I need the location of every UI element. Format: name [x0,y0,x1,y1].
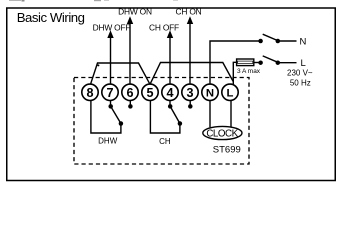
svg-text:50 Hz: 50 Hz [290,79,311,88]
svg-text:5: 5 [146,86,153,100]
svg-text:7: 7 [106,86,113,100]
wire CH ON arrow from terminal 3 [187,16,193,84]
clock motor CLOCK [203,126,242,139]
terminal L [222,84,238,100]
switch mains N [258,34,296,43]
wire fuse to L switch [254,62,259,64]
node DHW OFF contact dot [108,104,113,109]
dashed enclosure ST699 programmer [74,78,249,165]
terminal 3 [182,84,198,100]
wire terminal N up and right to mains N switch [210,41,259,84]
wire stub terminal 7 contact [110,101,112,107]
terminal 4 [162,84,178,100]
wire DHW ON arrow from terminal 6 [127,16,133,84]
node CH OFF contact dot [168,104,173,109]
node DHW ON contact dot [128,104,133,109]
svg-text:N: N [300,36,307,47]
svg-text:8: 8 [86,86,93,100]
svg-text:DHW: DHW [98,137,118,146]
fuse F1 3 A max [237,59,254,66]
node DHW pivot dot [119,121,124,126]
wire link bus terminal 5 to terminal L [150,63,233,85]
switch DHW blade [111,106,121,123]
wire stub terminal 3 contact [189,101,191,107]
node CH ON contact dot [188,104,193,109]
svg-text:CH OFF: CH OFF [149,22,179,32]
svg-text:CH: CH [159,137,171,146]
svg-text:4: 4 [166,86,173,100]
svg-text:Basic Wiring: Basic Wiring [17,10,85,25]
switch mains L [258,56,296,65]
svg-text:DHW ON: DHW ON [118,7,152,17]
svg-text:CLOCK: CLOCK [206,128,238,139]
wire CH OFF arrow from terminal 4 [167,30,173,84]
svg-text:6: 6 [126,86,133,100]
cropped text remnants at top edge [9,0,178,2]
svg-text:3 A max: 3 A max [237,68,261,75]
wire terminal N to clock [209,101,211,128]
svg-text:ST699: ST699 [213,145,241,156]
outer frame [7,8,336,181]
node CH pivot dot [178,121,183,126]
wire fuse to terminal L [233,62,236,85]
terminal 8 [82,84,98,100]
wire CH switch common elbow to terminal 5 [150,101,180,133]
svg-text:CH ON: CH ON [176,7,202,17]
terminal 5 [142,84,158,100]
svg-text:3: 3 [186,86,193,100]
svg-text:230 V~: 230 V~ [287,69,313,78]
wire DHW OFF arrow from terminal 7 [107,30,113,84]
svg-text:N: N [206,88,214,100]
wire stub terminal 4 contact [169,101,171,107]
wire terminal L to clock [230,101,232,128]
switch CH blade [170,106,180,123]
wire link bus terminal 8 to terminal 5 [91,63,151,84]
node asterisk mark [97,64,99,66]
terminal N [202,84,218,100]
wire DHW switch common elbow to terminal 8 [91,101,121,133]
svg-text:L: L [301,58,306,69]
terminal 7 [102,84,118,100]
svg-text:DHW OFF: DHW OFF [93,22,131,32]
terminal 6 [122,84,138,100]
svg-text:L: L [227,88,234,100]
wire stub terminal 6 contact [129,101,131,107]
